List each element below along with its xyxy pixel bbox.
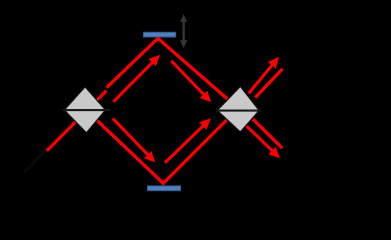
wire upper-left arm arrow line A1 [113,60,154,101]
wire output 2 arrow line A6 [247,126,275,153]
wire output 1 main line M5 [255,69,282,98]
node phase-shift double arrow [180,14,187,48]
wire input beam through BS1 [47,91,107,151]
beam splitter BS2 mid line [216,110,261,112]
wire lower arm main (BS1 to mirror M2 to BS2) [86,105,242,184]
beam splitter BS1 mid line [63,109,111,111]
mirror M2 (bottom) [147,186,180,191]
wire lower-left arm arrow line A3 [113,119,150,157]
wire output 2 main line M6 [253,119,282,148]
wire upper-right arm arrow line A2 [171,61,205,97]
wire lower-right arm arrow line A4 [165,124,205,163]
mirror M1 (top) [143,32,175,37]
wire faint source stub [24,151,46,173]
wire upper arm main (BS1 to mirror M1 to BS2) [107,38,235,105]
beam splitter BS1 [64,87,105,133]
beam splitter BS2 [217,86,259,131]
wire output 1 arrow line A5 [249,63,274,93]
